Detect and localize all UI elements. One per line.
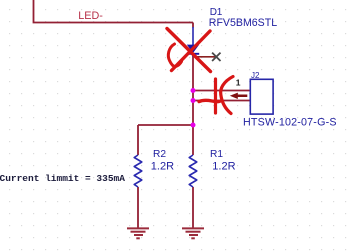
svg-text:1: 1 [236,77,241,87]
svg-text:HTSW-102-07-G-S: HTSW-102-07-G-S [243,116,337,128]
svg-text:RFV5BM6STL: RFV5BM6STL [209,17,277,29]
svg-text:R1: R1 [210,149,223,160]
svg-text:1.2R: 1.2R [212,161,235,173]
svg-text:LED-: LED- [78,10,103,22]
svg-text:J2: J2 [251,71,260,80]
svg-text:Current limmit = 335mA: Current limmit = 335mA [0,173,125,184]
svg-text:R2: R2 [153,149,166,160]
svg-text:1.2R: 1.2R [151,161,174,173]
